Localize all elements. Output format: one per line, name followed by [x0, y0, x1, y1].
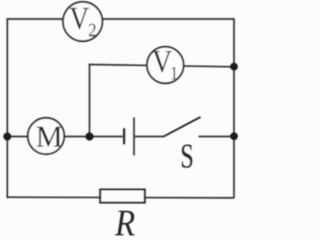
junction node: middle branch on right rail [230, 132, 238, 140]
voltmeter V2 body [63, 2, 102, 41]
battery cell: short plate (negative) [123, 128, 125, 144]
label S [182, 144, 192, 167]
junction node: V1 riser on middle branch [85, 132, 93, 140]
wire: battery to switch pivot [134, 136, 164, 138]
wire: left side vertical [6, 18, 8, 198]
motor M label [37, 127, 62, 147]
resistor R body [100, 190, 145, 203]
motor M body [28, 118, 64, 154]
resistor R label [115, 211, 135, 236]
voltmeter V1 body [147, 47, 184, 84]
battery cell: long plate (positive) [133, 118, 135, 156]
junction node: left rail / motor branch [3, 133, 11, 141]
wire: right side vertical [233, 18, 235, 198]
wire: bottom side through R [7, 196, 234, 199]
wire: V1 branch vertical riser [89, 64, 91, 137]
wire: switch contact to right side [199, 136, 235, 138]
junction node: V1 branch on right rail [230, 63, 238, 71]
wire: V1 branch horizontal [89, 65, 234, 67]
voltmeter V1 label [152, 51, 171, 73]
switch S: blade (open) [163, 117, 201, 137]
wire: top side (node between V2 terminals) [7, 18, 234, 20]
wire: middle branch left (through M to battery) [7, 136, 123, 138]
voltmeter V2 label [70, 8, 89, 30]
